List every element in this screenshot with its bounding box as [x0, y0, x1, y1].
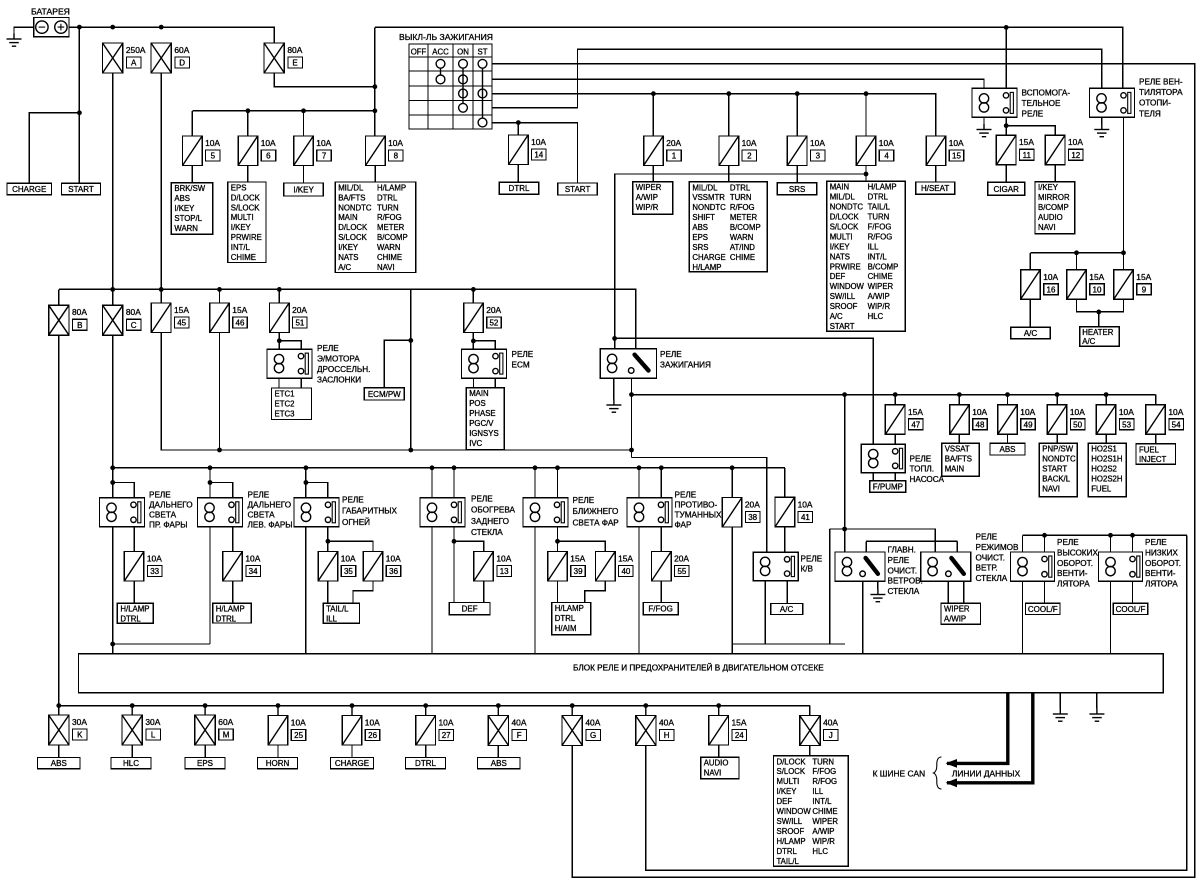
svg-text:A/WIP: A/WIP [636, 193, 658, 202]
fuse 27 10A [416, 716, 436, 746]
svg-text:ВЕТРОВ.: ВЕТРОВ. [888, 577, 923, 586]
label CHARGE [7, 183, 52, 195]
wire fuse 4 to ignition relay coil [615, 174, 866, 349]
svg-text:27: 27 [442, 731, 451, 740]
wire battery to ground [14, 27, 34, 33]
wire fuel coil out [872, 473, 874, 481]
wire to defogger coil [431, 468, 433, 498]
svg-text:H/LAMP: H/LAMP [377, 183, 406, 192]
svg-text:35: 35 [344, 567, 353, 576]
svg-text:8: 8 [394, 152, 399, 161]
svg-text:DEF: DEF [830, 272, 846, 281]
text wiper main relay name [888, 546, 923, 597]
svg-text:РЕЛЕ: РЕЛЕ [660, 350, 682, 359]
ground battery [7, 34, 22, 47]
relay WIPER MAIN (ГЛАВН. РЕЛЕ ОЧИСТ. ВЕТРОВ. СТЕКЛА) [835, 552, 885, 581]
svg-text:ДАЛЬНЕГО: ДАЛЬНЕГО [149, 501, 193, 510]
junction fuse 7 [301, 108, 306, 113]
label fuse 14 [531, 137, 546, 160]
junction tail relay [304, 465, 309, 470]
svg-text:HLC: HLC [812, 847, 828, 856]
svg-text:СВЕТА ФАР: СВЕТА ФАР [573, 518, 620, 527]
line coil returns right [732, 643, 845, 645]
ground aux relay [977, 124, 992, 137]
svg-text:F/FOG: F/FOG [868, 223, 892, 232]
fuse 40 15A [596, 552, 616, 582]
svg-text:J: J [829, 731, 833, 740]
svg-text:MULTI: MULTI [777, 777, 800, 786]
svg-text:7: 7 [322, 152, 327, 161]
svg-text:РЕЛЕ: РЕЛЕ [149, 491, 171, 500]
fuse 14 10A [509, 135, 529, 165]
svg-text:A/C: A/C [830, 312, 843, 321]
junction wiper feed [842, 392, 847, 397]
wire fuse 53 out [1105, 434, 1107, 443]
label fuse 25 [291, 718, 306, 741]
fuse 13 10A [474, 552, 494, 582]
svg-text:DTRL: DTRL [415, 759, 436, 768]
svg-text:9: 9 [1142, 285, 1147, 294]
svg-text:B: B [77, 321, 82, 330]
wire link H to fan bus [646, 535, 1187, 870]
svg-text:B/COMP: B/COMP [868, 262, 899, 271]
fusible link C 80A [103, 305, 123, 335]
junction headlamp R tee [110, 480, 115, 485]
label A/C (fuse 16) [1011, 327, 1050, 339]
junction fuse 10 [1074, 250, 1079, 255]
svg-text:INJECT: INJECT [1139, 455, 1167, 464]
wire to fan hi coil [1022, 535, 1024, 552]
wire top bus to heater fan relay [375, 27, 1123, 88]
svg-text:NONDTC: NONDTC [1042, 455, 1076, 464]
riser link E column [374, 27, 376, 136]
svg-text:ST: ST [478, 48, 488, 57]
svg-text:РЕЛЕ: РЕЛЕ [248, 491, 270, 500]
svg-text:20A: 20A [666, 138, 681, 148]
relay HEATER FAN (РЕЛЕ ВЕНТИЛЯТОРА ОТОПИТЕЛЯ) [1090, 88, 1135, 117]
label fuse 5 [205, 138, 220, 161]
svg-text:DTRL: DTRL [120, 615, 141, 624]
svg-text:NONDTC: NONDTC [338, 203, 372, 212]
svg-text:METER: METER [377, 223, 405, 232]
wire ignition relay output [631, 378, 633, 457]
svg-text:H: H [664, 731, 670, 740]
svg-text:CHIME: CHIME [231, 253, 256, 262]
wire fuse 8 out [374, 166, 376, 183]
svg-text:I/KEY: I/KEY [231, 223, 252, 232]
label fuse 47 [908, 407, 923, 430]
wire to link K [58, 706, 60, 715]
fuse 6 10A [238, 136, 258, 166]
svg-text:NAVI: NAVI [704, 769, 722, 778]
svg-text:10A: 10A [1020, 407, 1035, 417]
svg-text:D/LOCK: D/LOCK [830, 213, 860, 222]
fuse 8 10A [366, 136, 386, 166]
junction 26 [350, 703, 355, 708]
wire fuse 48 out [958, 434, 960, 443]
list fuse 6 circuits [228, 182, 266, 263]
svg-text:H/LAMP: H/LAMP [868, 183, 897, 192]
fuse 24 15A [709, 716, 729, 746]
svg-text:R/FOG: R/FOG [377, 213, 402, 222]
svg-text:START: START [830, 322, 855, 331]
svg-text:10A: 10A [261, 138, 276, 148]
svg-text:ILL: ILL [868, 242, 880, 251]
svg-text:ЗАСЛОНКИ: ЗАСЛОНКИ [317, 376, 361, 385]
wire fuse 6 out [247, 166, 249, 183]
fuse 9 15A [1114, 270, 1134, 300]
stub main wiper contact [865, 541, 867, 552]
wire AC relay coil return [764, 581, 766, 644]
svg-text:11: 11 [1023, 151, 1032, 160]
label ABS (link F) [478, 758, 521, 769]
svg-text:14: 14 [534, 151, 543, 160]
svg-text:H/LAMP: H/LAMP [777, 837, 806, 846]
label fuse 24 [732, 718, 747, 741]
svg-text:WARN: WARN [377, 243, 401, 252]
relay FAN LOW (РЕЛЕ НИЗКИХ ОБОРОТ. ВЕНТИЛЯТОРА) [1099, 552, 1143, 581]
svg-text:ТЕЛЬНОЕ: ТЕЛЬНОЕ [1022, 99, 1061, 108]
svg-text:INT/L: INT/L [868, 252, 888, 261]
svg-text:ТУМАННЫХ: ТУМАННЫХ [675, 511, 723, 520]
wire fuel contact out [894, 473, 896, 481]
list fuse 50 circuits [1039, 443, 1077, 497]
svg-text:L: L [151, 731, 156, 740]
wire to fuse 10 [1076, 253, 1078, 270]
svg-text:MIL/DL: MIL/DL [692, 183, 718, 192]
ground heater fan relay [1094, 124, 1109, 137]
svg-text:10A: 10A [365, 718, 380, 728]
svg-text:10A: 10A [972, 407, 987, 417]
junction fuse 13 [452, 539, 457, 544]
wire fuse 26 out [351, 746, 353, 758]
svg-text:36: 36 [389, 567, 398, 576]
svg-text:49: 49 [1024, 420, 1033, 429]
junction fuse 3 [795, 91, 800, 96]
svg-text:Э/МОТОРА: Э/МОТОРА [317, 354, 360, 363]
wire to HEATER A/C [1098, 312, 1100, 327]
label fuse 41 [798, 499, 813, 522]
svg-text:HO2S1H: HO2S1H [1091, 455, 1122, 464]
svg-text:РЕЛЕ: РЕЛЕ [1022, 110, 1044, 119]
svg-text:START: START [1042, 465, 1067, 474]
text headlamp L relay name [248, 491, 293, 530]
svg-text:33: 33 [150, 567, 159, 576]
wire fuse 50 out [1056, 434, 1058, 443]
wire fuse 40 out [585, 581, 606, 603]
relay FAN HIGH (РЕЛЕ ВЫСОКИХ ОБОРОТ. ВЕНТИЛЯТОРА) [1011, 552, 1055, 581]
svg-text:50: 50 [1073, 420, 1082, 429]
junction defogger coil [430, 465, 435, 470]
label fuse 39 [570, 554, 585, 577]
svg-text:РЕЛЕ: РЕЛЕ [976, 533, 998, 542]
label fuse 46 [232, 305, 247, 328]
junction wiper bus / feed [842, 527, 847, 532]
svg-text:K: K [77, 731, 83, 740]
svg-text:AUDIO: AUDIO [704, 759, 729, 768]
svg-text:12: 12 [1071, 151, 1080, 160]
fuse 38 20A [722, 498, 742, 528]
list fuse 4 circuits [827, 181, 906, 331]
svg-text:WIPER: WIPER [636, 183, 662, 192]
label fuse 4 [879, 138, 894, 161]
fuse 7 10A [294, 136, 314, 166]
ground ignition relay [606, 400, 621, 413]
svg-text:BACK/L: BACK/L [1042, 475, 1070, 484]
svg-text:16: 16 [1047, 285, 1056, 294]
junction 24 [716, 703, 721, 708]
label fuse 53 [1119, 407, 1134, 430]
svg-text:A: A [131, 59, 137, 68]
label fuse 51 [292, 305, 307, 328]
text throttle relay name [317, 344, 370, 385]
svg-text:STOP/L: STOP/L [174, 214, 202, 223]
svg-text:NATS: NATS [338, 253, 358, 262]
junction fan lo contact [1130, 533, 1135, 538]
fuse 36 10A [363, 552, 383, 582]
svg-text:DTRL: DTRL [509, 184, 530, 193]
svg-text:15: 15 [952, 152, 961, 161]
wire fuse 39 out [557, 581, 559, 603]
svg-text:B/COMP: B/COMP [377, 233, 408, 242]
fuse 48 10A [950, 405, 970, 435]
svg-text:S/LOCK: S/LOCK [338, 233, 367, 242]
label fuse 7 I/KEY [284, 183, 324, 196]
svg-text:ПР. ФАРЫ: ПР. ФАРЫ [149, 521, 188, 530]
wire wiper mode output 2 [963, 581, 965, 603]
junction headlamp L tee [208, 480, 213, 485]
svg-text:ОГНЕЙ: ОГНЕЙ [342, 516, 370, 527]
wire ign row2 to aux relay coil [492, 79, 984, 88]
svg-text:I/KEY: I/KEY [830, 242, 851, 251]
wire AC relay contact to A/C [786, 581, 788, 604]
CAN line 2 (thick) [947, 693, 1033, 783]
list fuse 1 circuits [633, 182, 673, 215]
label DTRL (fuse 27) [406, 758, 446, 769]
ground block 2 [1096, 693, 1098, 709]
wire fuse 24 out [718, 746, 720, 758]
svg-text:NATS: NATS [830, 252, 850, 261]
svg-text:WIPER: WIPER [868, 282, 894, 291]
svg-text:WARN: WARN [174, 224, 198, 233]
junction fog contact [659, 465, 664, 470]
svg-text:РЕЛЕ: РЕЛЕ [342, 496, 364, 505]
junction HEATER A/C [1096, 310, 1101, 315]
svg-text:CIGAR: CIGAR [994, 185, 1020, 194]
wire to fuse 36 [328, 541, 373, 551]
label ABS (fuse 49) [990, 443, 1025, 455]
svg-text:47: 47 [911, 420, 920, 429]
bus wiper relays [830, 529, 936, 552]
wire ign row4 to heater fan coil [492, 49, 1102, 108]
svg-text:FUEL: FUEL [1139, 445, 1160, 454]
svg-text:HEATER: HEATER [1082, 328, 1113, 337]
ground symbol block 1 [1053, 709, 1068, 722]
fuse 3 10A [787, 136, 807, 166]
svg-text:A/WIP: A/WIP [944, 615, 966, 624]
list fuse 8 circuits [335, 182, 415, 273]
svg-text:20A: 20A [745, 500, 760, 510]
svg-text:MIRROR: MIRROR [1038, 193, 1070, 202]
label link L [145, 717, 160, 740]
fuse 46 15A [210, 303, 230, 333]
svg-text:SW/ILL: SW/ILL [830, 292, 856, 301]
relay ECM (РЕЛЕ ECM) [462, 349, 507, 378]
text low beam relay name [573, 496, 620, 527]
svg-text:START: START [565, 185, 591, 194]
list fuse 48 circuits [942, 443, 980, 476]
wire ECM contact out [494, 378, 496, 388]
svg-text:R/FOG: R/FOG [730, 203, 755, 212]
svg-text:РЕЖИМОВ: РЕЖИМОВ [976, 543, 1020, 552]
wire fuse 55 out [660, 581, 662, 603]
svg-text:MAIN: MAIN [469, 389, 489, 398]
svg-text:6: 6 [266, 152, 271, 161]
text AC relay name [801, 555, 823, 574]
label HORN [258, 758, 298, 769]
wire fuse 33 out [133, 581, 135, 603]
svg-text:3: 3 [816, 152, 821, 161]
fuse and relay block (БЛОК РЕЛЕ И ПРЕДОХРАНИТЕЛЕЙ В ДВИГАТЕЛЬНОМ ОТСЕКЕ) [79, 654, 1164, 693]
wire to headlamp L coil [209, 468, 211, 498]
fuse 16 10A [1021, 270, 1041, 300]
wire fan contact to A/C fuse bus [1123, 117, 1125, 269]
label link K [72, 717, 87, 740]
svg-text:SHIFT: SHIFT [692, 213, 715, 222]
CAN line 1 (thick) [947, 693, 1008, 764]
wire fan coil to ground [1101, 117, 1103, 124]
fuse 34 10A [223, 552, 243, 582]
relay HIGH BEAM LEFT (РЕЛЕ ДАЛЬНЕГО СВЕТА ЛЕВ. ФАРЫ) [198, 498, 243, 527]
svg-text:ДАЛЬНЕГО: ДАЛЬНЕГО [248, 501, 292, 510]
svg-text:WIP/R: WIP/R [868, 302, 891, 311]
bus from link A [59, 288, 474, 290]
svg-text:START: START [68, 185, 94, 194]
svg-text:10A: 10A [496, 554, 511, 564]
label CIGAR [988, 182, 1025, 195]
wire fuses 10,9 join [1077, 299, 1124, 312]
svg-text:ILL: ILL [326, 615, 338, 624]
svg-text:БЛИЖНЕГО: БЛИЖНЕГО [573, 507, 619, 516]
fusible link K 30A [49, 715, 69, 745]
wire to fog relay contact [660, 468, 662, 498]
svg-text:ФАР: ФАР [675, 521, 693, 530]
svg-text:15A: 15A [232, 305, 247, 315]
label link H [659, 718, 674, 741]
svg-text:РЕЛЕ: РЕЛЕ [675, 491, 697, 500]
label F/FOG [643, 603, 678, 615]
list fuse 12 circuits [1035, 182, 1075, 234]
svg-text:DTRL: DTRL [216, 615, 237, 624]
svg-text:ЗАЖИГАНИЯ: ЗАЖИГАНИЯ [660, 361, 711, 370]
wire low beam contact to fuse 39 [557, 527, 559, 552]
wire to fuse 4 [865, 94, 867, 136]
svg-text:РЕЛЕ: РЕЛЕ [512, 350, 534, 359]
svg-text:CHIME: CHIME [730, 253, 755, 262]
junction fuse 51 [277, 287, 282, 292]
wire link B to bottom bus [58, 335, 60, 705]
fusible link G 40A [562, 716, 582, 746]
wire to ECM/PW [384, 340, 411, 387]
wire fog coil return [638, 527, 640, 654]
svg-text:10A: 10A [1070, 407, 1085, 417]
wire to fuse 14 [517, 123, 519, 135]
label fuse 50 [1070, 407, 1085, 430]
svg-text:A/C: A/C [1082, 337, 1095, 346]
svg-text:M: M [223, 731, 230, 740]
wire to throttle relay contact [279, 341, 301, 349]
svg-text:CHIME: CHIME [868, 272, 893, 281]
svg-text:INT/L: INT/L [231, 243, 251, 252]
svg-text:NONDTC: NONDTC [692, 203, 726, 212]
svg-text:ETC2: ETC2 [275, 399, 295, 408]
svg-text:MIL/DL: MIL/DL [338, 183, 364, 192]
junction fuse 6 [246, 108, 251, 113]
wire fuses 45,46 outputs [161, 333, 632, 451]
svg-text:10A: 10A [798, 499, 813, 509]
label fuse 16 [1043, 272, 1058, 295]
label link G [585, 718, 600, 741]
fuse 25 10A [268, 716, 288, 746]
svg-text:D/LOCK: D/LOCK [338, 223, 368, 232]
svg-text:WARN: WARN [730, 233, 754, 242]
wire tail contact to fuse 35 [327, 527, 329, 552]
svg-text:1: 1 [672, 152, 677, 161]
svg-text:26: 26 [368, 731, 377, 740]
wire top bus to aux relay contact [1005, 27, 1007, 88]
label SRS [777, 183, 817, 195]
junction F [496, 703, 501, 708]
svg-text:СТЕКЛА: СТЕКЛА [471, 528, 503, 537]
svg-text:H/LAMP: H/LAMP [120, 605, 149, 614]
svg-text:15A: 15A [732, 718, 747, 728]
text heater fan relay name [1139, 78, 1183, 119]
junction fan lo coil [1108, 533, 1113, 538]
ignition switch contacts [436, 59, 487, 127]
fuse 12 10A [1045, 135, 1065, 165]
wire ign row5 to START [492, 123, 578, 183]
relay WIPER MODE (РЕЛЕ РЕЖИМОВ ОЧИСТ. ВЕТР. СТЕКЛА) [921, 552, 971, 581]
line coil returns left [113, 643, 210, 645]
svg-text:80A: 80A [72, 307, 87, 317]
svg-text:15A: 15A [570, 554, 585, 564]
wire to low beam coil [534, 468, 536, 498]
svg-text:TURN: TURN [377, 203, 399, 212]
junction fuse 46 output [217, 448, 222, 453]
svg-text:TAIL/L: TAIL/L [326, 605, 349, 614]
wire to fuse 12 [1006, 126, 1055, 136]
wire to headlamp L contact [210, 483, 233, 498]
svg-text:ПРОТИВО-: ПРОТИВО- [675, 501, 718, 510]
wire to fan hi contact [1044, 535, 1046, 552]
junction fuse 4 output tee [864, 172, 869, 177]
fuse 55 20A [652, 552, 672, 582]
junction fuse 38 [730, 465, 735, 470]
label COOL/F hi [1026, 603, 1061, 614]
junction fuse 4 [864, 91, 869, 96]
junction CHARGE tee [77, 110, 82, 115]
fusible link A 250A [103, 43, 123, 73]
label link D [174, 45, 189, 68]
label fuse 9 [1136, 272, 1151, 295]
svg-text:A/C: A/C [338, 263, 351, 272]
wire headlamp R contact to fuse 33 [133, 527, 135, 552]
svg-text:ОБОРОТ.: ОБОРОТ. [1057, 559, 1093, 568]
wire battery bus to link E [69, 27, 274, 43]
junction ECM relay tee [471, 339, 476, 344]
bottom bus from link B [59, 705, 810, 707]
svg-text:NAVI: NAVI [1042, 485, 1060, 494]
